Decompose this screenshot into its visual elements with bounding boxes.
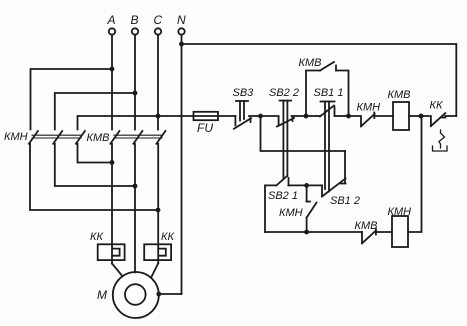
button SB2.1 (NO start reverse) <box>265 176 307 232</box>
wire node X down and across (feed of reverse branch) <box>261 116 346 151</box>
contactor KMB linkage double line <box>114 135 162 138</box>
wire SB1.2 to node M <box>307 184 322 186</box>
svg-text:КК: КК <box>90 231 103 243</box>
wire branch B to KMH contact 2 <box>55 93 135 130</box>
svg-text:КМВ: КМВ <box>299 57 322 69</box>
node N junction to control rail <box>179 42 184 47</box>
wire phase B vertical (terminal B down to KMB contact 2) <box>134 35 136 130</box>
svg-text:SB3: SB3 <box>233 87 255 99</box>
svg-text:SB2 1: SB2 1 <box>268 190 298 202</box>
wire B-prime down to motor <box>134 144 136 272</box>
wire control feed C to fuse <box>158 115 235 117</box>
wire KMH contact1 output to C-prime <box>30 144 158 210</box>
contact KMB aux seal-in (bypass over SB1.1) <box>306 62 349 116</box>
wire KMH contact3 output to A-prime <box>78 144 113 163</box>
thermal element KK right <box>144 244 171 276</box>
svg-text:М: М <box>97 288 107 302</box>
wire A-prime down to thermal element <box>111 144 113 245</box>
svg-text:SB1 1: SB1 1 <box>314 87 344 99</box>
wire N to motor horizontal <box>159 293 182 295</box>
node A branch <box>110 67 115 72</box>
terminal N <box>177 13 186 35</box>
contactor KMH contact 2 blade <box>53 131 62 144</box>
svg-text:КМВ: КМВ <box>388 89 411 101</box>
svg-text:FU: FU <box>197 121 213 135</box>
node motor star point <box>156 292 161 297</box>
contactor KMB contact 1 blade <box>110 131 119 144</box>
svg-text:КМВ: КМВ <box>87 132 110 144</box>
coil KMH <box>392 216 408 247</box>
terminal B <box>131 13 139 35</box>
contactor KMH contact 3 blade <box>76 131 85 144</box>
node B branch <box>133 91 138 96</box>
node C-prime <box>156 208 161 213</box>
thermal element KK left <box>98 244 125 276</box>
contactor KMB contact 2 blade <box>133 131 142 144</box>
wire right rail up to N <box>182 44 457 116</box>
svg-text:КК: КК <box>430 100 443 112</box>
node C branch / control feed tap <box>156 114 161 119</box>
node W (coils junction) <box>419 114 424 119</box>
svg-text:A: A <box>107 13 116 27</box>
svg-text:КМН: КМН <box>279 207 303 219</box>
svg-text:SB2 2: SB2 2 <box>269 87 299 99</box>
node M (reverse branch mid node) <box>304 183 309 188</box>
wire phase C vertical (terminal C down to KMB contact 3) <box>157 35 159 130</box>
wire coil KMH up to node W <box>408 116 422 232</box>
contactor KMH linkage double line <box>32 135 81 138</box>
button SB3 (NC stop) <box>234 101 261 129</box>
button SB2.2 (NC interlock of reverse button) <box>261 101 307 179</box>
contactor KMH contact 1 blade <box>29 131 38 144</box>
wire phase A vertical (terminal A down to KMB contact 1) <box>111 35 113 130</box>
terminal C <box>154 13 163 35</box>
node after SB1.1 <box>346 114 351 119</box>
contactor KMB contact 3 blade <box>156 131 165 144</box>
button SB1.1 (NO start forward) <box>306 102 349 192</box>
button SB1.2 (NC interlock of forward button) <box>322 151 346 197</box>
coil KMB <box>393 102 409 130</box>
svg-text:C: C <box>154 13 163 27</box>
svg-text:B: B <box>131 13 139 27</box>
wire branch C to KMH contact 3 <box>78 116 159 130</box>
contact KMH aux seal-in <box>307 185 317 232</box>
svg-text:SB1 2: SB1 2 <box>330 195 360 207</box>
svg-text:КМН: КМН <box>4 131 28 143</box>
wire lower row <box>265 231 362 233</box>
terminal A <box>107 13 116 35</box>
node before SB1.1 <box>304 114 309 119</box>
wire branch A to KMH contact 1 <box>31 69 113 130</box>
node B-prime <box>133 184 138 189</box>
wire coil KMB to node W <box>409 115 421 117</box>
svg-text:N: N <box>177 13 186 27</box>
node after SB3 <box>258 114 263 119</box>
wire KMH contact2 output to B-prime <box>55 144 135 186</box>
motor M <box>113 272 159 318</box>
node lower row <box>304 230 309 235</box>
contact KMB NC interlock <box>362 229 392 243</box>
svg-text:КМН: КМН <box>357 102 381 114</box>
svg-text:КК: КК <box>161 231 174 243</box>
node A-prime <box>110 160 115 165</box>
contact KK thermal NC <box>421 113 456 151</box>
wire neutral N vertical (terminal N down to motor star point) <box>181 35 183 294</box>
fuse FU <box>194 112 219 120</box>
svg-text:КМВ: КМВ <box>355 220 378 232</box>
contact KMH NC interlock <box>349 113 394 127</box>
wire C-prime down to thermal element <box>157 144 159 245</box>
